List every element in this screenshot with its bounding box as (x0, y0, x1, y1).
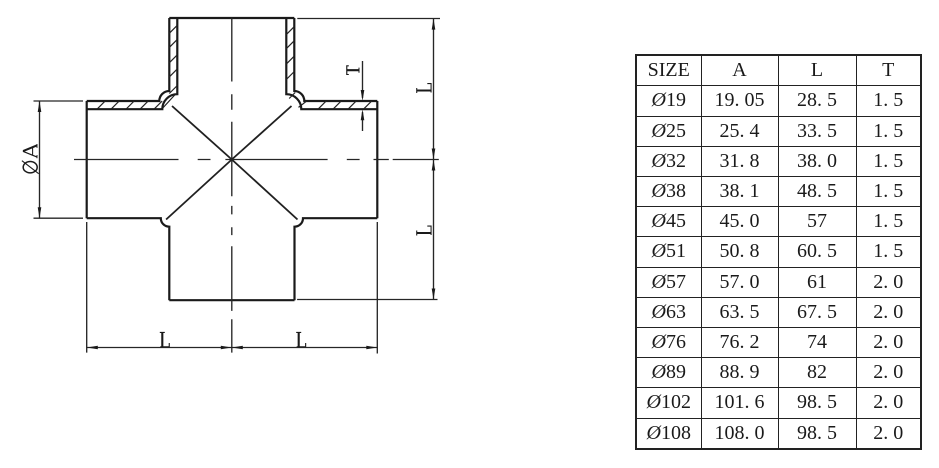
leader T (362, 61, 364, 131)
arrowhead right dim mid upper (432, 149, 436, 160)
centerline vertical (231, 18, 233, 353)
outer outline top-left quadrant (87, 18, 170, 101)
dimension line right L (433, 19, 435, 300)
dimension line phiA (39, 101, 41, 218)
arrowhead phiA up (38, 101, 42, 112)
body outline right end face (376, 101, 378, 218)
arrowhead right dim top (432, 19, 436, 30)
intersection diagonal to top-left corner (172, 106, 232, 160)
label T (346, 65, 359, 75)
extension line bottom-left (86, 222, 88, 353)
extension line phiA bottom (34, 217, 84, 219)
hatch right arm top wall (318, 101, 372, 109)
arrowhead phiA down (38, 207, 42, 218)
body outline top end face (169, 17, 294, 19)
inner bore line top-left quadrant (87, 18, 178, 109)
arrowhead T up (361, 109, 365, 120)
arrowhead bottom dim center-right (232, 346, 243, 350)
outer outline bottom-right quadrant (295, 218, 378, 300)
dimension line bottom L (87, 347, 378, 349)
centerline horizontal (74, 159, 439, 161)
body outline bottom end face (169, 299, 294, 301)
extension line right bottom (297, 299, 437, 301)
hatch top arm right wall (286, 27, 294, 80)
extension line right top (297, 18, 440, 20)
arrowhead bottom dim right (366, 346, 377, 350)
hatch lens top-right fillet (289, 93, 306, 108)
label L right bottom (416, 226, 431, 236)
label L right top (416, 83, 431, 93)
body outline left end face (86, 101, 88, 218)
label L bottom left (160, 332, 170, 347)
inner bore line top-right quadrant (286, 18, 377, 109)
extension line bottom-right (376, 222, 378, 354)
intersection diagonal to bottom-right corner (232, 160, 298, 220)
outer outline top-right quadrant (294, 18, 377, 101)
arrowhead bottom dim center-left (221, 346, 232, 350)
arrowhead T down (361, 90, 365, 101)
extension line phiA top (34, 100, 84, 102)
arrowhead right dim bottom (432, 289, 436, 300)
intersection diagonal to top-right corner (232, 106, 292, 160)
label phiA (22, 144, 39, 174)
arrowhead bottom dim left (87, 346, 98, 350)
hatch lens top-left fillet (163, 86, 178, 109)
hatch left arm top wall (97, 101, 162, 109)
label L bottom right (296, 332, 306, 347)
hatch top arm left wall (169, 25, 177, 77)
arrowhead right dim mid lower (432, 160, 436, 171)
outer outline bottom-left quadrant (87, 218, 170, 300)
intersection diagonal to bottom-left corner (166, 160, 232, 220)
dimension table (635, 54, 922, 450)
